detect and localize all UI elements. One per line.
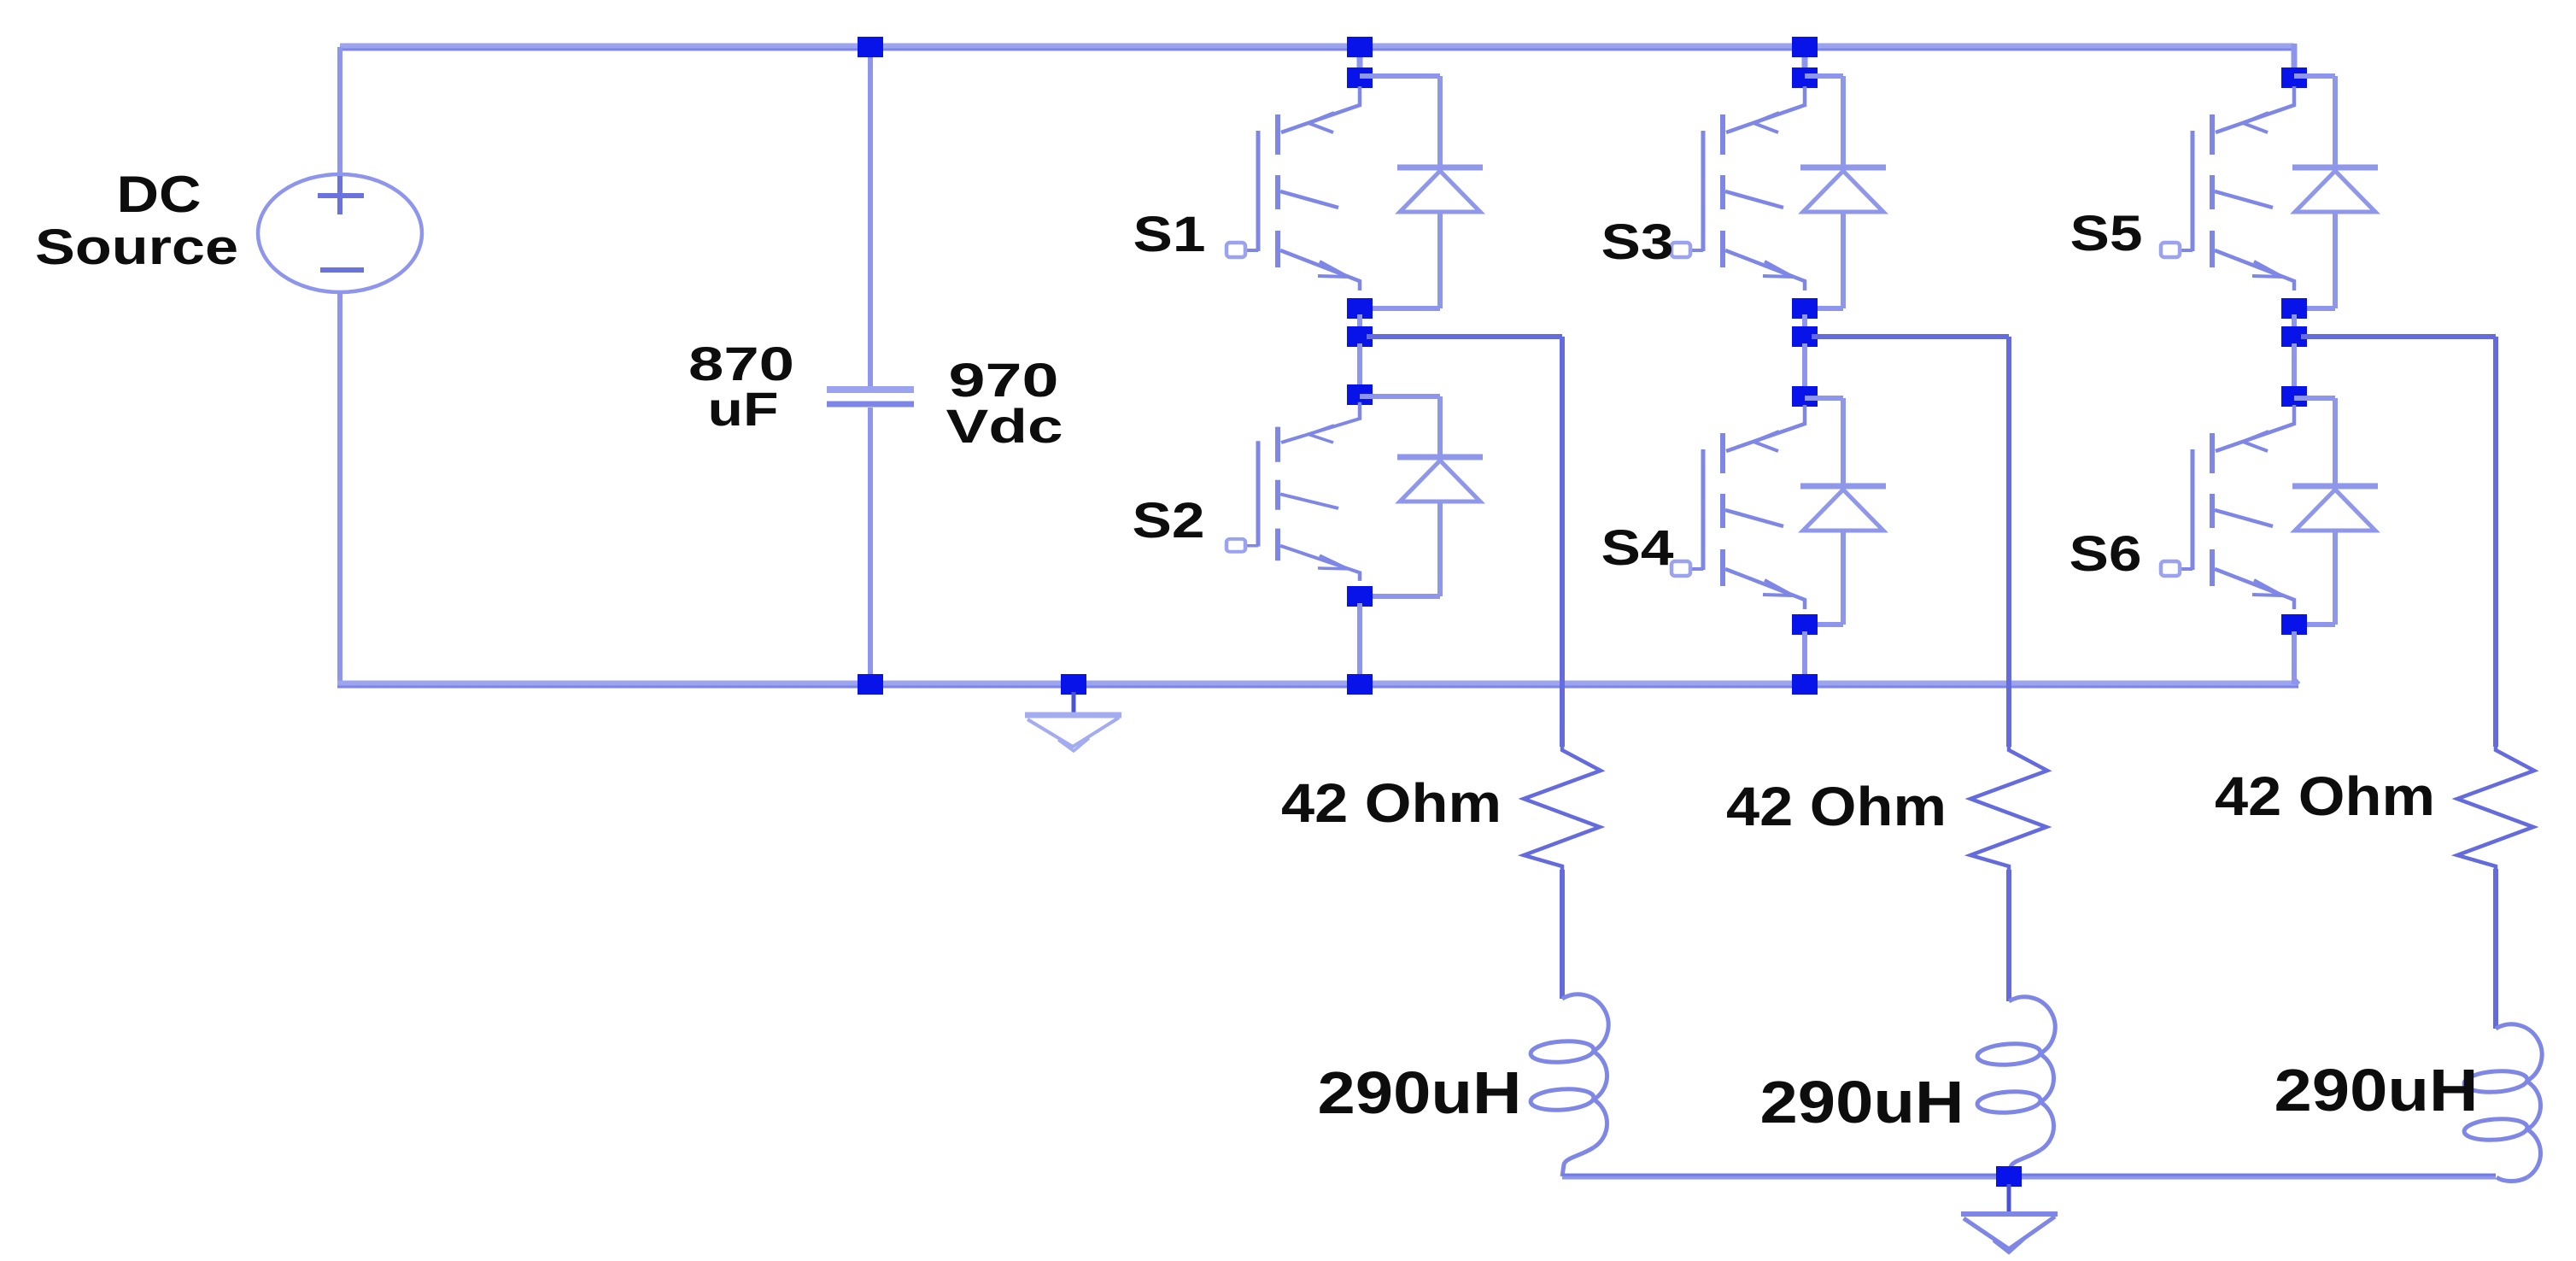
transistor S6 (IGBT)	[2161, 405, 2294, 609]
wire phase B horizontal	[1812, 334, 2009, 339]
node leg 1 top bus junction	[1347, 37, 1373, 57]
wire bottom DC bus	[337, 681, 2298, 689]
diode D6 freewheel	[2333, 398, 2338, 486]
wire R2 to L2	[2006, 870, 2011, 1001]
wire leg 3 bottom corner	[2294, 679, 2298, 684]
ground G2 symbol	[2007, 1184, 2011, 1213]
dc source minus sign	[320, 267, 364, 273]
dc source V1 ellipse	[258, 174, 422, 292]
wire phase A horizontal	[1367, 334, 1562, 339]
wire S4 emitter to bottom bus	[1802, 631, 1807, 684]
diode D3 freewheel	[1841, 76, 1846, 167]
svg-text:S5: S5	[2070, 206, 2143, 261]
svg-text:Vdc: Vdc	[946, 399, 1063, 453]
wire phase C horizontal	[2301, 334, 2496, 339]
node neutral junction	[1996, 1166, 2022, 1187]
dc source plus sign	[318, 193, 364, 198]
node S2 collector	[1347, 384, 1373, 405]
node S3 emitter	[1792, 298, 1818, 319]
node S6 collector	[2281, 386, 2307, 407]
node S3 collector	[1792, 67, 1818, 88]
node S2 emitter	[1347, 586, 1373, 607]
wire DC source positive lead	[337, 47, 342, 178]
wire leg 1 top drop	[1357, 47, 1363, 72]
node phase output B	[1792, 326, 1818, 347]
node ground G1 junction	[1061, 674, 1086, 695]
diode D1 freewheel	[1437, 76, 1443, 167]
transistor S2 (IGBT)	[1227, 402, 1360, 581]
wire leg 2 mid drop	[1802, 343, 1807, 390]
node S1 emitter	[1347, 298, 1373, 319]
wire phase A drop	[1560, 337, 1565, 747]
wire phase B drop	[2006, 337, 2011, 747]
wire S6 emitter to bottom bus	[2292, 631, 2297, 684]
wire capacitor top lead	[868, 47, 873, 387]
wire top bus corner to S5 leg	[2292, 44, 2298, 72]
transistor S1 (IGBT)	[1227, 86, 1360, 290]
diode D5 freewheel	[2333, 76, 2338, 167]
ground G1 symbol	[1072, 692, 1076, 714]
capacitor C1 plates	[827, 386, 914, 393]
transistor S4 (IGBT)	[1671, 405, 1805, 609]
inductor L3 290uH	[2496, 1024, 2542, 1081]
svg-text:S4: S4	[1601, 520, 1674, 576]
wire neutral bus	[1562, 1174, 2496, 1180]
node S4 emitter	[1792, 614, 1818, 635]
svg-text:uF: uF	[708, 382, 779, 436]
svg-text:42 Ohm: 42 Ohm	[1281, 772, 1502, 834]
wire leg 2 top drop	[1802, 47, 1808, 72]
diode D4 freewheel	[1841, 398, 1846, 486]
svg-text:42 Ohm: 42 Ohm	[2215, 765, 2435, 827]
svg-text:DC: DC	[117, 166, 202, 223]
wire S3 emitter to phase node	[1802, 314, 1807, 330]
node S5 emitter	[2281, 298, 2307, 319]
node phase output C	[2281, 326, 2307, 347]
diode D2 freewheel	[1437, 396, 1443, 457]
resistor R3 42 Ohm	[2457, 747, 2534, 870]
wire S1 emitter to phase node	[1357, 314, 1362, 330]
wire R3 to L3	[2493, 869, 2498, 1029]
node S4 collector	[1792, 386, 1818, 407]
wire leg 1 mid drop	[1357, 343, 1362, 388]
inductor L2 290uH	[2009, 997, 2055, 1053]
transistor S3 (IGBT)	[1671, 86, 1805, 290]
svg-text:S3: S3	[1601, 214, 1674, 270]
wire top DC bus	[340, 44, 2294, 51]
svg-text:S6: S6	[2070, 526, 2142, 582]
node capacitor top junction	[858, 37, 883, 57]
node leg 2 bottom junction	[1792, 674, 1818, 695]
wire phase C drop	[2493, 337, 2498, 747]
resistor R2 42 Ohm	[1970, 747, 2047, 870]
node S6 emitter	[2281, 614, 2307, 635]
node leg 2 top bus junction	[1792, 37, 1818, 57]
wire S2 emitter to bottom bus	[1357, 603, 1362, 684]
wire capacitor bottom lead	[868, 408, 873, 684]
node capacitor bottom junction	[858, 674, 883, 695]
node S1 collector	[1347, 67, 1373, 88]
resistor R1 42 Ohm	[1524, 747, 1601, 870]
svg-text:S2: S2	[1133, 493, 1205, 548]
wire leg 3 mid drop	[2292, 343, 2297, 390]
wire DC source negative lead	[337, 290, 342, 684]
transistor S5 (IGBT)	[2161, 86, 2294, 290]
svg-text:Source: Source	[35, 220, 238, 275]
svg-text:42 Ohm: 42 Ohm	[1726, 776, 1947, 837]
node S5 collector	[2281, 67, 2307, 88]
svg-text:S1: S1	[1133, 207, 1206, 262]
wire leg 3 top drop	[2292, 47, 2298, 72]
wire R1 to L1	[1560, 870, 1565, 999]
wire S5 emitter to phase node	[2292, 314, 2297, 330]
svg-text:290uH: 290uH	[1318, 1059, 1522, 1126]
svg-text:290uH: 290uH	[2274, 1057, 2479, 1123]
inductor L1 290uH	[1562, 994, 1608, 1051]
svg-text:290uH: 290uH	[1760, 1069, 1964, 1135]
node phase output A	[1347, 326, 1373, 347]
node leg 1 bottom junction	[1347, 674, 1373, 695]
